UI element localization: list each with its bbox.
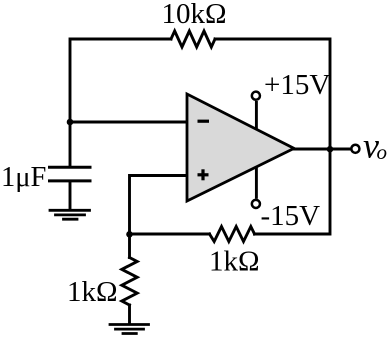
svg-text:-15V: -15V [261,200,321,232]
svg-text:o: o [377,140,388,164]
svg-text:1kΩ: 1kΩ [67,276,118,308]
svg-text:1μF: 1μF [1,162,46,193]
svg-text:+15V: +15V [264,69,330,101]
svg-text:1kΩ: 1kΩ [209,246,260,278]
svg-text:10kΩ: 10kΩ [162,0,227,30]
